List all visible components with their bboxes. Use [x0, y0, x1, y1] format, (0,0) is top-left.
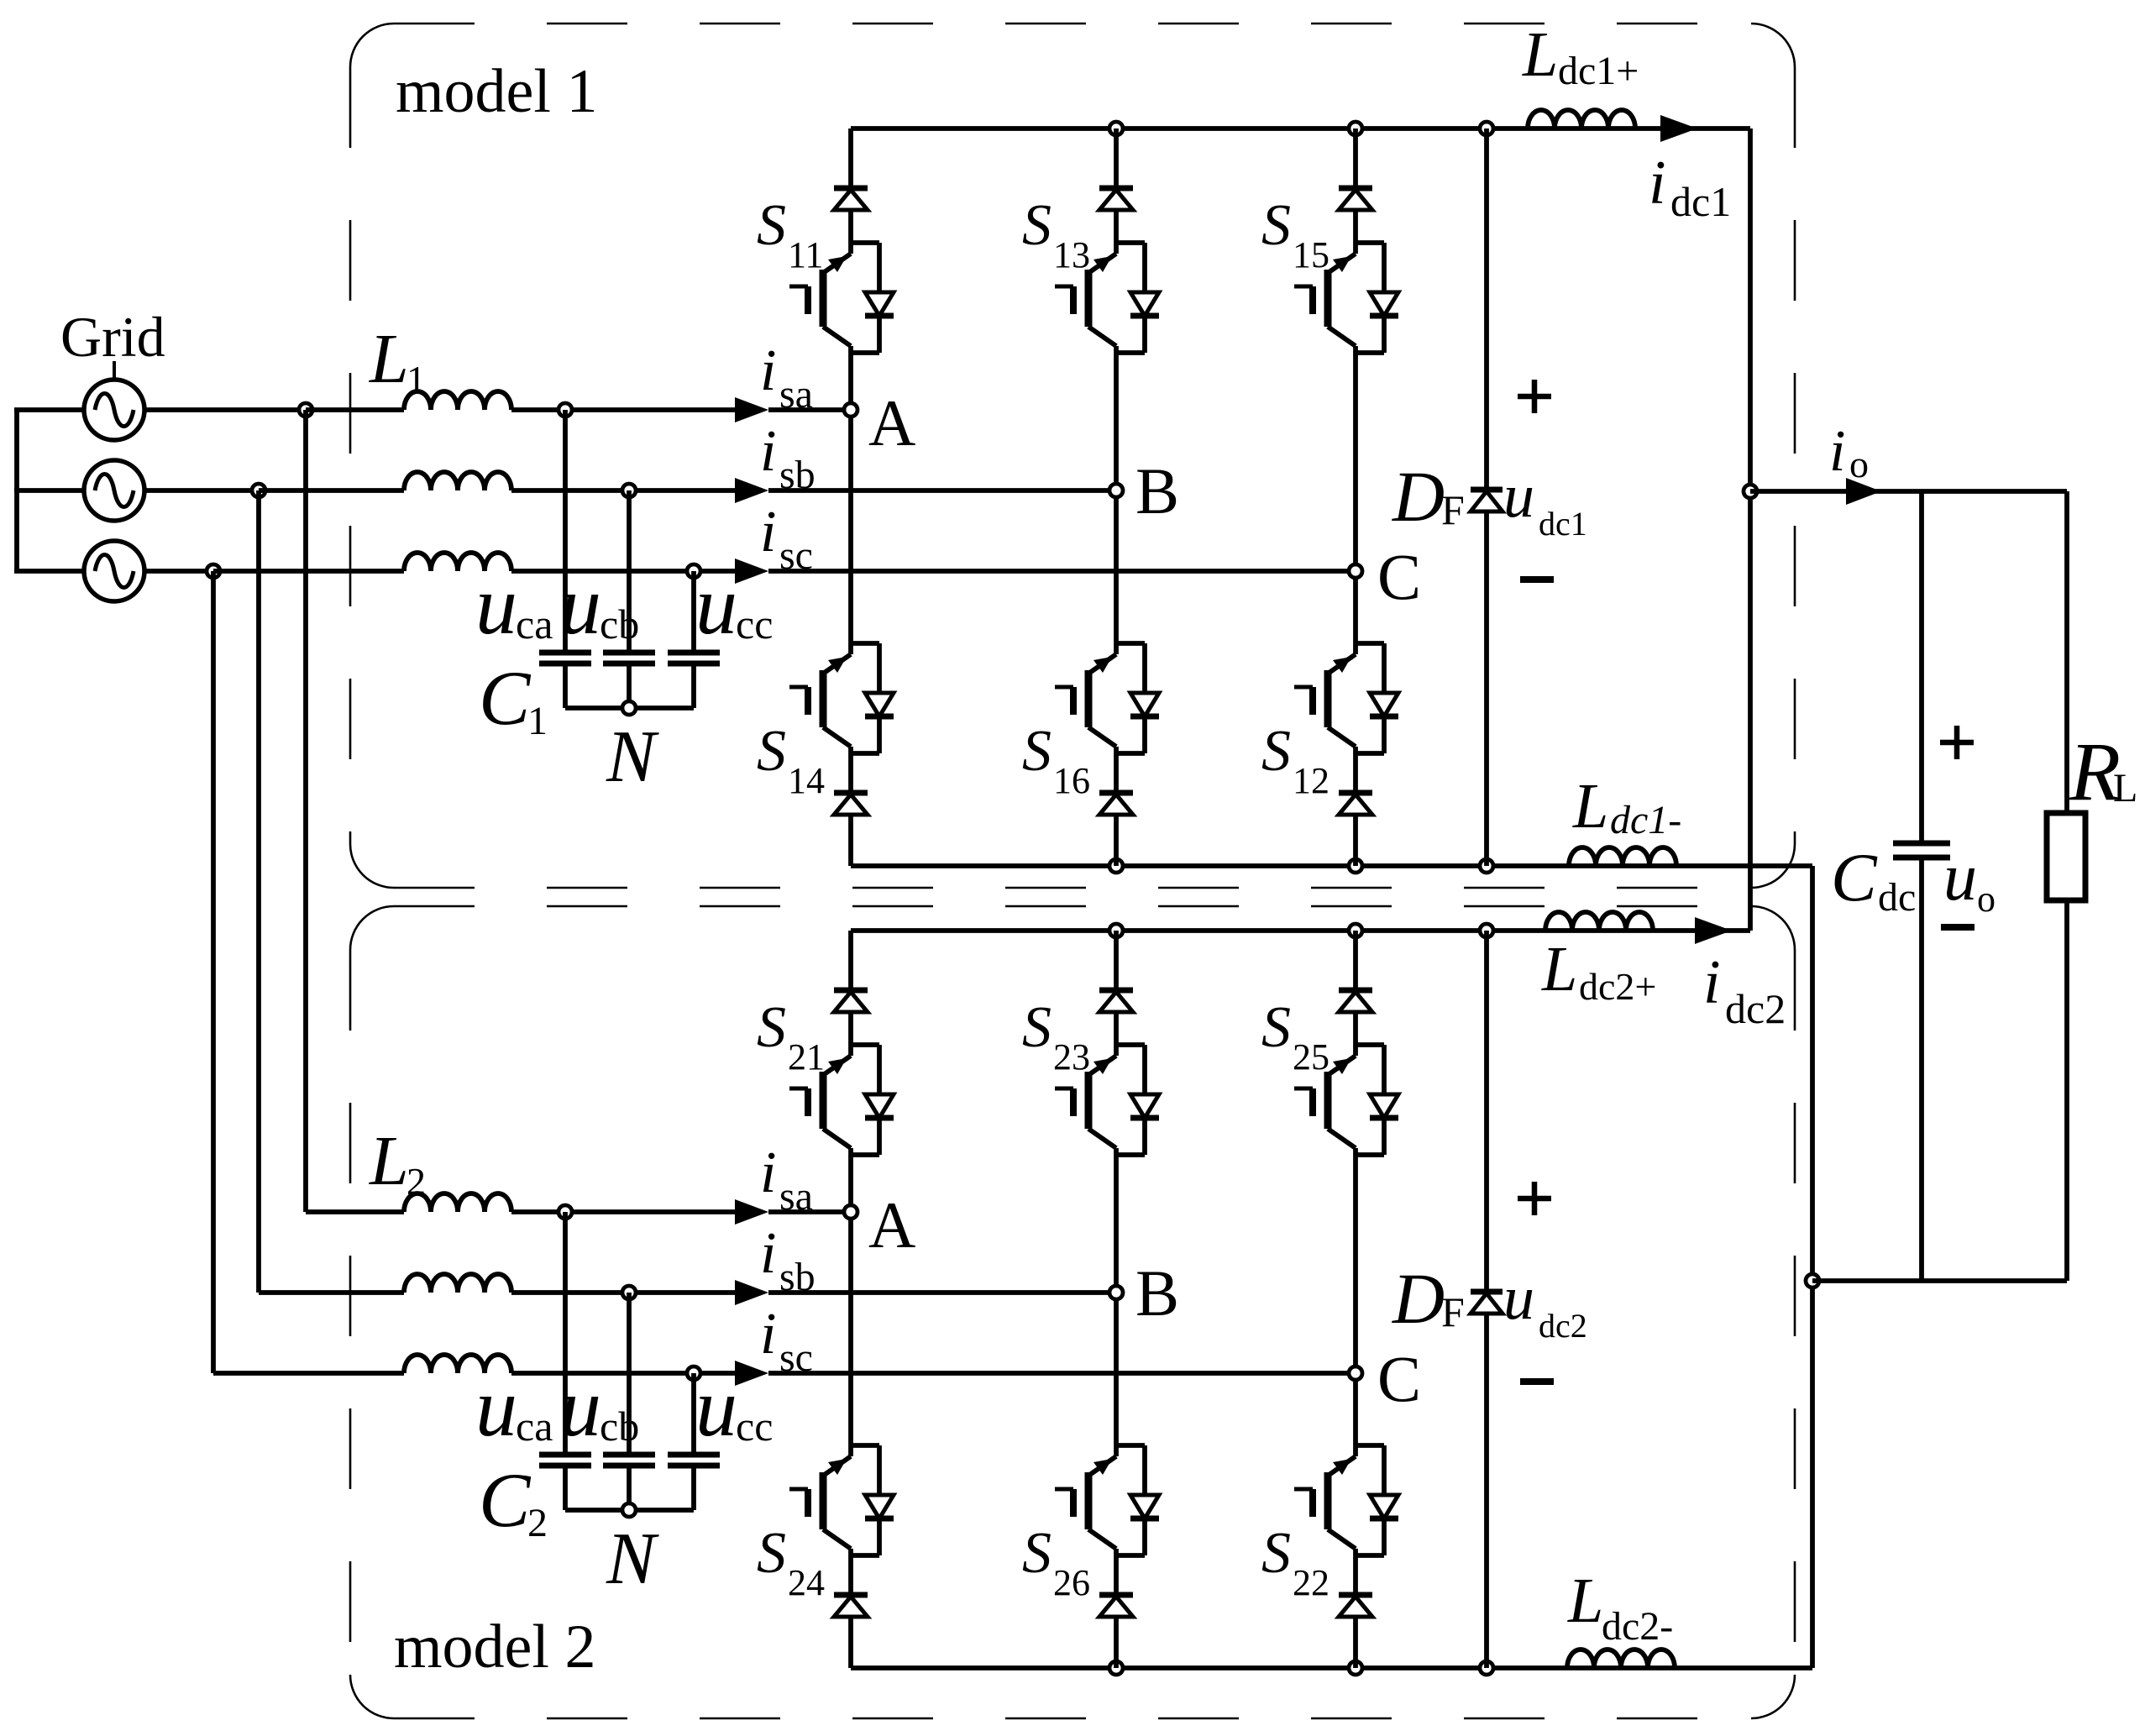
svg-text:S: S: [1261, 719, 1291, 784]
label L_dc1-: [1572, 771, 1681, 842]
label u_cb m1: [559, 559, 639, 652]
svg-text:u: u: [1943, 841, 1977, 915]
transistor S25 (IGBT with antiparallel diode): [1294, 1045, 1398, 1155]
svg-text:i: i: [760, 500, 776, 564]
node B m2: [1109, 1286, 1123, 1299]
label A m1: [868, 386, 915, 459]
node A m2: [844, 1205, 857, 1219]
svg-text:cb: cb: [600, 601, 639, 648]
node output minus: [1806, 1274, 1819, 1288]
svg-text:23: 23: [1053, 1036, 1090, 1078]
svg-text:C: C: [1831, 839, 1878, 915]
arrow i_sb m1: [735, 478, 768, 503]
svg-text:D: D: [1392, 1258, 1445, 1339]
svg-text:B: B: [1135, 1256, 1179, 1330]
svg-text:i: i: [760, 338, 776, 403]
node tap phase c: [207, 564, 220, 578]
wire phase c after inductor m2: [511, 1371, 735, 1376]
node cap tap a m2: [559, 1205, 572, 1219]
svg-text:D: D: [1392, 456, 1445, 537]
label plus u_o: [1940, 726, 1974, 759]
wire cap a drop m1: [563, 410, 568, 653]
wire phase a to node A m2: [768, 1209, 851, 1214]
label S12: [1261, 719, 1329, 801]
svg-text:cc: cc: [736, 1403, 773, 1450]
label i_sb m1: [760, 419, 816, 497]
svg-text:dc2: dc2: [1725, 985, 1786, 1032]
svg-text:sa: sa: [779, 1174, 813, 1219]
svg-text:o: o: [1977, 878, 1996, 920]
wire phase b input m2: [259, 1290, 404, 1295]
label B m1: [1135, 454, 1179, 527]
svg-text:C: C: [1377, 540, 1421, 613]
tick from Grid label to source Va: [113, 361, 116, 380]
svg-text:dc1: dc1: [1539, 505, 1587, 543]
arrow i_dc1: [1660, 115, 1697, 142]
label S24: [757, 1521, 825, 1603]
label i_dc2: [1703, 948, 1786, 1032]
svg-text:2: 2: [406, 1160, 426, 1203]
node bottom bus leg B m1: [1109, 859, 1123, 873]
transistor S21 (IGBT with antiparallel diode): [789, 1045, 894, 1155]
node top bus leg C m1: [1349, 122, 1362, 135]
wire drop phase a to model 2: [303, 410, 308, 1212]
capacitor C1 phase a: [539, 653, 591, 663]
svg-text:C: C: [479, 1457, 532, 1543]
wire dc- right vertical model1: [1810, 866, 1815, 1281]
svg-text:16: 16: [1053, 760, 1090, 801]
node cap tap c m1: [687, 564, 700, 578]
arrow i_sb m2: [735, 1280, 768, 1305]
node top bus leg B m2: [1109, 924, 1123, 937]
diode DF m2: [1471, 1292, 1503, 1314]
wire cap b to N m2: [627, 1466, 632, 1510]
wire phase b to node B m2: [768, 1290, 1116, 1295]
capacitor C_dc: [1893, 843, 1950, 858]
wire DF column upper m1: [1484, 128, 1489, 488]
svg-text:15: 15: [1293, 234, 1329, 275]
node N m1: [622, 701, 636, 715]
wire cap c to N m1: [691, 663, 696, 708]
svg-text:sb: sb: [779, 1255, 816, 1299]
label i_o: [1829, 419, 1869, 485]
svg-text:S: S: [757, 995, 786, 1060]
svg-text:i: i: [760, 1141, 776, 1205]
node tap phase a: [299, 403, 312, 417]
capacitor C1 phase c: [668, 653, 720, 663]
node bottom bus leg B m2: [1109, 1661, 1123, 1675]
label u_ca m1: [475, 559, 553, 652]
svg-text:L: L: [1541, 934, 1577, 1004]
wire DF column lower m1: [1484, 511, 1489, 866]
node bottom bus DF m2: [1480, 1661, 1493, 1675]
svg-text:21: 21: [788, 1036, 825, 1078]
label S11: [757, 193, 823, 275]
diode series bottom of S14: [834, 753, 868, 866]
arrow i_sa m1: [735, 397, 768, 422]
label Grid: [60, 305, 165, 369]
label C2: [479, 1457, 548, 1545]
transistor S22 (IGBT with antiparallel diode): [1294, 1445, 1398, 1555]
wire ac node to S16: [1114, 490, 1119, 643]
resistor R_L: [2047, 813, 2085, 900]
svg-text:i: i: [1703, 948, 1721, 1017]
wire dc- right vertical model2: [1810, 1281, 1815, 1668]
inductor L1 phase b: [404, 472, 511, 490]
svg-text:1: 1: [527, 699, 548, 743]
diode series bottom of S22: [1339, 1555, 1372, 1668]
svg-text:cc: cc: [736, 601, 773, 648]
svg-text:sb: sb: [779, 453, 816, 497]
transistor S11 (IGBT with antiparallel diode): [789, 243, 894, 353]
label model 2: [394, 1613, 595, 1681]
label B m2: [1135, 1256, 1179, 1330]
wire cap c to N m2: [691, 1466, 696, 1510]
svg-text:L: L: [369, 320, 409, 398]
wire phase b after inductor m2: [511, 1290, 735, 1295]
wire phase c after inductor m1: [511, 569, 735, 574]
label C m1: [1377, 540, 1421, 613]
svg-text:14: 14: [788, 760, 825, 801]
transistor S23 (IGBT with antiparallel diode): [1055, 1045, 1159, 1155]
inductor L_dc2-: [1567, 1649, 1675, 1668]
wire C_dc top: [1919, 491, 1924, 843]
wire cap c drop m2: [691, 1373, 696, 1455]
inductor L2 phase a: [404, 1193, 511, 1212]
wire cap b to N m1: [627, 663, 632, 708]
svg-text:B: B: [1135, 454, 1179, 527]
arrow i_sc m1: [735, 559, 768, 584]
svg-text:S: S: [1022, 995, 1052, 1060]
wire phase a after inductor m1: [511, 407, 735, 412]
inductor L2 phase b: [404, 1274, 511, 1293]
wire cap b drop m2: [627, 1293, 632, 1455]
node B m1: [1109, 484, 1123, 497]
svg-text:22: 22: [1293, 1562, 1329, 1603]
svg-text:N: N: [606, 1518, 659, 1600]
wire phase a to node A m1: [768, 407, 851, 412]
label N m1: [606, 716, 659, 798]
wire R_L bottom: [2064, 900, 2069, 1281]
svg-text:25: 25: [1293, 1036, 1329, 1078]
ac source Vc: [84, 541, 144, 601]
label u_dc2: [1503, 1264, 1587, 1345]
label S15: [1261, 193, 1329, 275]
svg-text:i: i: [1649, 149, 1666, 218]
wire phase a input m2: [306, 1209, 404, 1214]
svg-text:N: N: [606, 716, 659, 798]
wire Vb left: [14, 488, 84, 493]
svg-text:dc2+: dc2+: [1579, 965, 1656, 1008]
label S16: [1022, 719, 1090, 801]
label L_dc2+: [1541, 934, 1656, 1008]
label S23: [1022, 995, 1090, 1078]
label N m2: [606, 1518, 659, 1600]
label A m2: [868, 1188, 915, 1261]
wire ac node to S26: [1114, 1293, 1119, 1445]
svg-text:u: u: [559, 1361, 601, 1454]
svg-text:F: F: [1441, 486, 1465, 533]
svg-text:dc2: dc2: [1539, 1307, 1587, 1345]
svg-text:S: S: [757, 719, 786, 784]
svg-text:i: i: [760, 419, 776, 484]
svg-text:dc: dc: [1878, 875, 1916, 920]
label u_cb m2: [559, 1361, 639, 1454]
node top bus leg C m2: [1349, 924, 1362, 937]
svg-text:i: i: [760, 1221, 776, 1286]
svg-text:F: F: [1441, 1288, 1465, 1335]
node cap tap b m1: [622, 484, 636, 497]
transistor S15 (IGBT with antiparallel diode): [1294, 243, 1398, 353]
diode series bottom of S16: [1099, 753, 1133, 866]
label S13: [1022, 193, 1090, 275]
diode series bottom of S26: [1099, 1555, 1133, 1668]
svg-text:i: i: [1829, 419, 1845, 484]
label L_dc1+: [1522, 19, 1639, 93]
ac source Va: [84, 380, 144, 440]
svg-text:u: u: [695, 559, 737, 652]
wire output top rail: [1750, 489, 2067, 494]
wire phase a input m1: [306, 407, 404, 412]
label S14: [757, 719, 825, 801]
svg-text:L: L: [369, 1122, 409, 1200]
label S26: [1022, 1521, 1090, 1603]
diode series top of S13: [1099, 128, 1133, 243]
svg-text:sa: sa: [779, 372, 813, 417]
label L1: [369, 320, 426, 401]
inductor L_dc2+: [1545, 912, 1653, 931]
svg-text:model 1: model 1: [396, 57, 597, 126]
svg-text:11: 11: [788, 234, 823, 275]
svg-text:26: 26: [1053, 1562, 1090, 1603]
diode series top of S23: [1099, 931, 1133, 1045]
diode series bottom of S12: [1339, 753, 1372, 866]
svg-text:dc1-: dc1-: [1610, 798, 1681, 842]
transistor S13 (IGBT with antiparallel diode): [1055, 243, 1159, 353]
wire phase c input m2: [213, 1371, 404, 1376]
label plus u_dc2: [1518, 1182, 1551, 1215]
label S21: [757, 995, 825, 1078]
label u_o: [1943, 841, 1996, 920]
svg-text:L: L: [1522, 19, 1558, 90]
node A m1: [844, 403, 857, 417]
wire Vb right to tap: [144, 488, 259, 493]
svg-text:A: A: [868, 386, 915, 459]
wire dc bottom bus m2: [851, 1665, 1812, 1670]
wire Vc right to tap: [144, 569, 213, 574]
node cap tap b m2: [622, 1286, 636, 1299]
wire output bottom rail: [1812, 1278, 2067, 1283]
label i_sc m1: [760, 500, 813, 578]
wire S15 to ac node: [1353, 353, 1358, 571]
wire cap b drop m1: [627, 490, 632, 653]
wire C_dc bottom: [1919, 858, 1924, 1281]
node top bus DF m1: [1480, 122, 1493, 135]
svg-text:S: S: [1022, 719, 1052, 784]
wire S11 to ac node: [848, 353, 853, 410]
svg-text:model 2: model 2: [394, 1613, 595, 1681]
transistor S24 (IGBT with antiparallel diode): [789, 1445, 894, 1555]
ac source Vb: [84, 460, 144, 521]
wire Va left: [14, 407, 84, 412]
label L2: [369, 1122, 426, 1203]
diode series top of S15: [1339, 128, 1372, 243]
wire dc bottom bus m1: [851, 863, 1812, 868]
wire cap c drop m1: [691, 571, 696, 653]
capacitor C2 phase c: [668, 1455, 720, 1466]
inductor L_dc1+: [1528, 110, 1635, 128]
label u_cc m1: [695, 559, 773, 652]
node C m2: [1349, 1366, 1362, 1380]
label R_L: [2069, 725, 2137, 818]
wire phase c to node C m1: [768, 569, 1356, 574]
wire S25 to ac node: [1353, 1155, 1358, 1373]
wire phase b after inductor m1: [511, 488, 735, 493]
label minus u_o: [1941, 924, 1975, 931]
svg-text:u: u: [475, 1361, 517, 1454]
svg-text:u: u: [695, 1361, 737, 1454]
wire S23 to ac node: [1114, 1155, 1119, 1293]
svg-text:S: S: [1261, 1521, 1291, 1586]
inductor L1 phase a: [404, 391, 511, 410]
model 2 enclosure (dashed box): [350, 906, 1795, 1718]
inductor L_dc1-: [1569, 847, 1676, 866]
label minus u_dc2: [1520, 1378, 1554, 1385]
node top bus leg B m1: [1109, 122, 1123, 135]
node cap tap c m2: [687, 1366, 700, 1380]
svg-text:sc: sc: [779, 1335, 813, 1380]
svg-text:C: C: [1377, 1342, 1421, 1415]
wire cap a to N m1: [563, 663, 568, 708]
node N m2: [622, 1503, 636, 1517]
svg-text:C: C: [479, 655, 532, 741]
wire dc+ right vertical model1: [1748, 128, 1753, 931]
node bottom bus leg C m1: [1349, 859, 1362, 873]
node cap tap a m1: [559, 403, 572, 417]
capacitor C2 phase b: [603, 1455, 655, 1466]
label plus u_dc1: [1518, 380, 1551, 413]
wire S13 to ac node: [1114, 353, 1119, 490]
node output plus: [1744, 485, 1757, 498]
svg-text:L: L: [1567, 1566, 1603, 1636]
diode series bottom of S24: [834, 1555, 868, 1668]
svg-text:u: u: [1503, 1264, 1534, 1333]
label u_ca m2: [475, 1361, 553, 1454]
node tap phase b: [252, 484, 265, 497]
svg-text:o: o: [1849, 443, 1869, 485]
wire cap a drop m2: [563, 1212, 568, 1455]
svg-text:u: u: [1503, 462, 1534, 531]
wire N bus m2: [565, 1508, 694, 1513]
wire phase b input m1: [259, 488, 404, 493]
svg-text:S: S: [757, 193, 786, 258]
wire dc top bus m2: [851, 928, 1750, 933]
wire ac node to S14: [848, 410, 853, 643]
label DF m1: [1392, 456, 1465, 537]
wire R_L top: [2064, 491, 2069, 813]
wire ac node to S22: [1353, 1373, 1358, 1445]
diode series top of S21: [834, 931, 868, 1045]
node top bus DF m2: [1480, 924, 1493, 937]
label i_dc1: [1649, 149, 1731, 225]
svg-text:dc1: dc1: [1670, 178, 1731, 225]
svg-text:S: S: [1261, 193, 1291, 258]
wire DF column upper m2: [1484, 931, 1489, 1290]
wire phase b to node B m1: [768, 488, 1116, 493]
wire drop phase b to model 2: [256, 490, 261, 1293]
label L_dc2-: [1567, 1566, 1673, 1649]
wire neutral bus left: [14, 410, 19, 571]
label model 1: [396, 57, 597, 126]
wire DF column lower m2: [1484, 1314, 1489, 1668]
transistor S12 (IGBT with antiparallel diode): [1294, 643, 1398, 753]
inductor L2 phase c: [404, 1355, 511, 1373]
svg-text:u: u: [475, 559, 517, 652]
diode series top of S11: [834, 128, 868, 243]
wire cap a to N m2: [563, 1466, 568, 1510]
svg-text:ca: ca: [516, 601, 553, 648]
wire Va right to tap: [144, 407, 306, 412]
svg-text:S: S: [1261, 995, 1291, 1060]
label C1: [479, 655, 548, 743]
label i_sa m1: [760, 338, 813, 417]
label S25: [1261, 995, 1329, 1078]
label u_dc1: [1503, 462, 1587, 543]
label DF m2: [1392, 1258, 1465, 1339]
svg-text:1: 1: [406, 358, 426, 401]
node bottom bus leg C m2: [1349, 1661, 1362, 1675]
diode series top of S25: [1339, 931, 1372, 1045]
wire N bus m1: [565, 705, 694, 711]
svg-text:24: 24: [788, 1562, 825, 1603]
label i_sb m2: [760, 1221, 816, 1299]
svg-text:Grid: Grid: [60, 305, 165, 369]
transistor S16 (IGBT with antiparallel diode): [1055, 643, 1159, 753]
svg-text:u: u: [559, 559, 601, 652]
svg-text:dc2-: dc2-: [1602, 1604, 1673, 1649]
arrow i_sa m2: [735, 1199, 768, 1225]
svg-text:i: i: [760, 1302, 776, 1366]
svg-text:ca: ca: [516, 1403, 553, 1450]
wire ac node to S12: [1353, 571, 1358, 643]
diode DF m1: [1471, 490, 1503, 511]
capacitor C1 phase b: [603, 653, 655, 663]
svg-text:S: S: [757, 1521, 786, 1586]
label i_sa m2: [760, 1141, 813, 1219]
svg-text:S: S: [1022, 193, 1052, 258]
svg-text:sc: sc: [779, 533, 813, 578]
label minus u_dc1: [1520, 576, 1554, 583]
svg-text:2: 2: [527, 1501, 548, 1545]
svg-text:cb: cb: [600, 1403, 639, 1450]
wire S21 to ac node: [848, 1155, 853, 1212]
wire Vc left: [14, 569, 84, 574]
wire phase c input m1: [213, 569, 404, 574]
label i_sc m2: [760, 1302, 813, 1380]
transistor S26 (IGBT with antiparallel diode): [1055, 1445, 1159, 1555]
node C m1: [1349, 564, 1362, 578]
node bottom bus DF m1: [1480, 859, 1493, 873]
wire phase c to node C m2: [768, 1371, 1356, 1376]
svg-text:L: L: [2113, 766, 2137, 810]
svg-text:L: L: [1572, 771, 1608, 842]
transistor S14 (IGBT with antiparallel diode): [789, 643, 894, 753]
wire ac node to S24: [848, 1212, 853, 1445]
wire phase a after inductor m2: [511, 1209, 735, 1214]
wire dc top bus m1: [851, 126, 1750, 131]
svg-text:dc1+: dc1+: [1558, 49, 1639, 93]
label C m2: [1377, 1342, 1421, 1415]
